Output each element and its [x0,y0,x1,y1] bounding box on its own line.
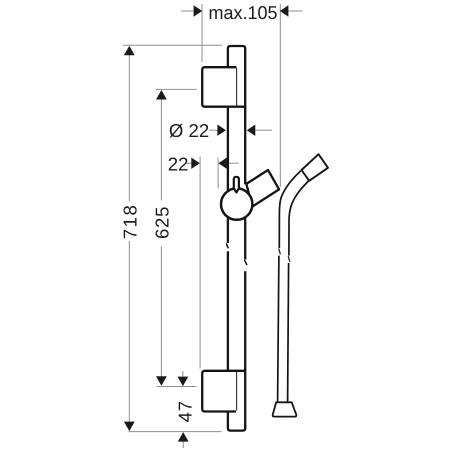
svg-text:max.105: max.105 [209,2,278,23]
bottom wall bracket body [202,371,236,412]
extension line bar bottom [129,431,222,433]
extension line 625 top [156,88,197,90]
bottom wall bracket collar to bar [236,369,245,371]
dimension max.105 tail right [289,10,303,12]
label 625 [152,207,173,240]
dimension dia22 tail right [255,129,272,131]
hose outer line break jog [279,249,281,255]
svg-text:625: 625 [152,207,173,240]
arrow 718 top [124,46,135,56]
label 718 [120,205,141,239]
dimension 22 tail left [187,162,192,164]
arrow 625 top [156,90,167,100]
extension line right of max.105 [279,4,281,187]
wall bar bottom end [228,412,245,431]
svg-text:47: 47 [174,400,195,422]
dimension 47 stub top [182,371,184,377]
hose outer line lower [278,256,279,402]
dimension max.105 tail left [181,10,194,12]
wall bar right edge lower section [244,271,246,429]
arrow 22 right [218,158,227,169]
wall bar left edge middle section [227,108,229,191]
arrow dia22 right [247,125,256,136]
extension tick slider left edge [217,158,219,189]
wall bar left edge lower section [227,251,229,371]
arrow 22 left [191,158,200,169]
top wall bracket front edge thin [236,68,238,106]
handshower holder arm [246,170,279,207]
arrow 47 bottom [178,432,189,442]
arrow max.105 left [194,5,203,16]
wall bar right edge break jog [245,260,248,265]
wall bar left edge below slider to break [227,218,229,243]
dimension line 625 [160,99,162,201]
wall face line between brackets [199,157,201,369]
wall bar upper section [228,46,245,184]
hose inner curve upper [289,181,309,256]
hose outer curve upper [279,171,301,248]
hose inner line break jog [288,256,290,262]
arrow 718 bottom [124,422,135,432]
extension line left of max.105 [201,4,203,62]
dimension 22 tail right [227,162,239,164]
extension line bar top [123,44,222,46]
wall bar right edge below slider to break [244,219,246,260]
label 47 [174,400,195,422]
arrow 625 bottom [156,376,167,386]
bottom wall bracket front edge thin [236,372,238,410]
hose end cone [273,402,297,416]
top wall bracket collar to bar [236,107,245,109]
svg-text:22: 22 [168,153,189,174]
arrow 47 top [178,377,189,387]
hose connector nut [302,154,329,181]
dimension line 718 [128,54,130,202]
wall bar left edge break jog [226,243,228,248]
slider body circle [221,188,252,219]
arrow max.105 right [280,5,289,16]
svg-text:718: 718 [120,205,141,239]
hose inner line lower [288,263,289,402]
svg-text:Ø 22: Ø 22 [169,120,209,141]
top wall bracket body [202,67,236,107]
reference line bottom bracket center [157,386,197,388]
dimension dia22 tail left [210,129,218,131]
dimension 47 stub bottom [182,442,184,448]
arrow dia22 left [217,125,226,136]
slider release knob [234,177,239,193]
